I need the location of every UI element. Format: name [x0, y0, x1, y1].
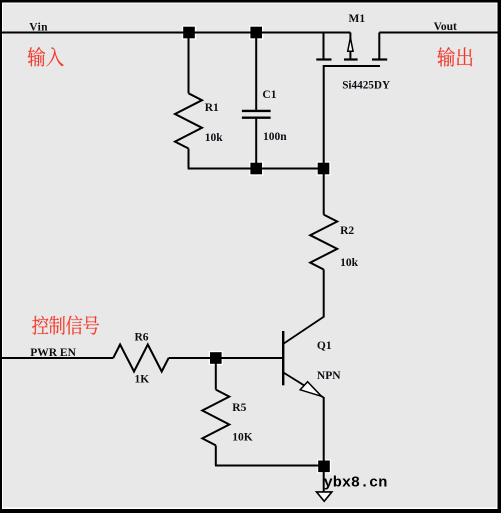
svg-text:R1: R1	[205, 102, 219, 114]
svg-text:R2: R2	[340, 225, 354, 237]
svg-text:Si4425DY: Si4425DY	[342, 80, 390, 92]
svg-text:Vin: Vin	[29, 21, 48, 33]
svg-text:M1: M1	[349, 13, 366, 25]
svg-text:10k: 10k	[205, 132, 224, 144]
svg-text:10k: 10k	[340, 257, 359, 269]
svg-text:R5: R5	[232, 402, 246, 414]
svg-text:PWR EN: PWR EN	[30, 347, 76, 359]
svg-text:Q1: Q1	[317, 340, 332, 352]
svg-text:NPN: NPN	[317, 370, 341, 382]
svg-text:ybx8.cn: ybx8.cn	[324, 474, 388, 492]
svg-text:Vout: Vout	[434, 21, 457, 33]
svg-text:10K: 10K	[232, 431, 253, 443]
svg-text:C1: C1	[262, 89, 276, 101]
svg-text:R6: R6	[135, 332, 149, 344]
svg-text:1K: 1K	[135, 374, 150, 386]
svg-text:100n: 100n	[263, 131, 287, 143]
